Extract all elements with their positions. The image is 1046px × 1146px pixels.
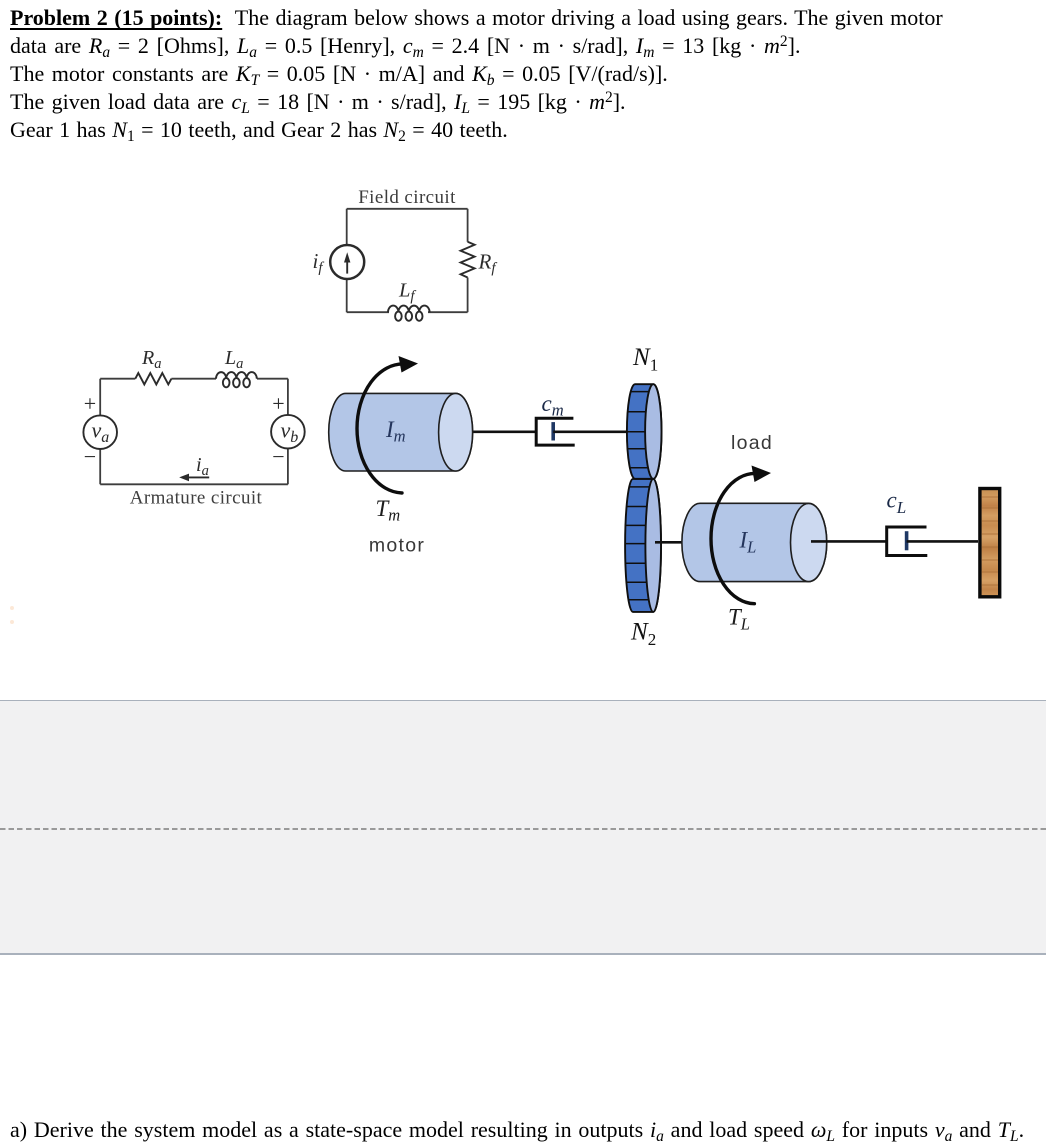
shaft damper cm to gear N1 bbox=[553, 430, 627, 433]
motor cylinder body Im bbox=[329, 393, 473, 471]
current arrow ia bbox=[179, 474, 209, 482]
wire field circuit right upper bbox=[467, 209, 469, 242]
motor cylinder right face bbox=[439, 393, 473, 471]
wire field circuit top bbox=[347, 208, 468, 210]
gear N1 teeth lines bbox=[627, 392, 649, 468]
damper cm cup bbox=[536, 418, 575, 445]
wire armature left bbox=[99, 379, 101, 485]
svg-text:cm: cm bbox=[542, 391, 564, 420]
gear N2 teeth lines bbox=[625, 487, 649, 600]
damper cL cup bbox=[887, 527, 928, 556]
gear N1 rim bbox=[627, 384, 662, 479]
load cylinder body IL bbox=[682, 503, 827, 581]
svg-text:Tm: Tm bbox=[376, 496, 401, 525]
answer area band bbox=[0, 700, 1046, 955]
svg-text:+: + bbox=[84, 391, 96, 416]
shaft damper cL to wall bbox=[907, 540, 978, 543]
dashed separator bbox=[0, 828, 1046, 830]
shaft gear N2 to load cylinder bbox=[655, 541, 684, 544]
svg-text:La: La bbox=[224, 347, 243, 372]
svg-text:−: − bbox=[272, 444, 284, 469]
stray faint dots (as in source) bbox=[10, 606, 14, 610]
torque arrowhead Tm bbox=[399, 356, 419, 373]
gear N2 rim bbox=[625, 479, 661, 612]
load cylinder right face bbox=[791, 503, 827, 581]
problem statement paragraph bbox=[10, 4, 943, 144]
wire field circuit left bbox=[346, 209, 348, 312]
shaft motor to damper cm bbox=[458, 430, 535, 433]
svg-text:Ra: Ra bbox=[141, 347, 161, 372]
svg-text:Lf: Lf bbox=[398, 280, 416, 305]
gear N1 face bbox=[645, 384, 661, 479]
svg-text:−: − bbox=[84, 444, 96, 469]
svg-text:ia: ia bbox=[196, 454, 209, 479]
wire field circuit right lower bbox=[467, 278, 469, 313]
current source if bbox=[330, 245, 364, 279]
torque arrow arc TL bbox=[711, 473, 756, 603]
torque arrow arc Tm bbox=[357, 364, 404, 493]
resistor Rf bbox=[461, 242, 475, 278]
wire armature top segments bbox=[100, 378, 288, 380]
torque arrowhead TL bbox=[752, 466, 772, 483]
damper cm piston bbox=[551, 422, 555, 440]
svg-text:Rf: Rf bbox=[478, 250, 498, 277]
resistor Ra bbox=[135, 373, 171, 384]
wire armature right bbox=[287, 379, 289, 485]
shaft load cylinder to damper cL bbox=[811, 540, 886, 543]
svg-text:Field circuit: Field circuit bbox=[358, 187, 456, 208]
wire field circuit bottom right bbox=[428, 311, 468, 313]
svg-text:if: if bbox=[313, 249, 325, 276]
svg-text:TL: TL bbox=[728, 605, 750, 634]
svg-text:load: load bbox=[731, 432, 773, 454]
svg-text:motor: motor bbox=[369, 535, 425, 557]
svg-text:Armature circuit: Armature circuit bbox=[130, 488, 263, 509]
gear N2 face bbox=[645, 479, 661, 612]
svg-text:+: + bbox=[272, 391, 284, 416]
svg-text:N1: N1 bbox=[632, 344, 658, 375]
wall (fixed support) bbox=[980, 489, 1000, 597]
wire armature bottom bbox=[100, 483, 288, 485]
voltage source vb bbox=[271, 415, 305, 449]
svg-text:cL: cL bbox=[887, 488, 907, 518]
inductor La bbox=[216, 372, 257, 387]
damper cL piston bbox=[905, 531, 909, 550]
question a) text bbox=[10, 1116, 1024, 1144]
inductor Lf bbox=[388, 306, 430, 321]
wire field circuit bottom left bbox=[347, 311, 389, 313]
svg-text:N2: N2 bbox=[630, 619, 656, 650]
voltage source va bbox=[83, 415, 117, 449]
